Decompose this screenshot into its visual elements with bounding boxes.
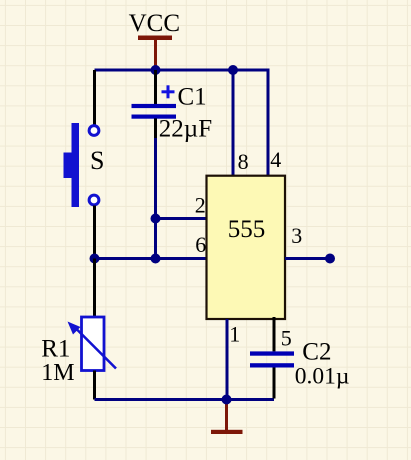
- svg-text:3: 3: [291, 223, 302, 248]
- svg-text:R1: R1: [41, 336, 70, 363]
- junction at ground: [222, 395, 232, 405]
- svg-text:6: 6: [195, 232, 206, 257]
- wire: pin 6 rail: [95, 257, 208, 260]
- svg-text:2: 2: [195, 193, 206, 218]
- junction at pin 8: [228, 65, 238, 75]
- svg-text:4: 4: [270, 147, 281, 172]
- svg-text:22µF: 22µF: [159, 115, 212, 142]
- svg-text:S: S: [90, 146, 104, 175]
- wire: R1 bottom to ground rail: [93, 371, 96, 400]
- junction C1/pin6 rail: [151, 254, 161, 264]
- capacitor C1: [132, 70, 177, 140]
- wire: C1 bottom down to pin6 rail: [154, 138, 157, 259]
- wire: junction down to R1: [93, 259, 96, 318]
- wire: pin 8 drop: [232, 70, 235, 177]
- wire: top rail from switch to pin 4 corner: [95, 70, 269, 177]
- wire: pin 2 stub: [156, 217, 208, 220]
- wire: pin 3 output: [285, 257, 330, 260]
- svg-text:0.01µ: 0.01µ: [295, 363, 350, 389]
- capacitor C2: [250, 317, 294, 399]
- junction at VCC stem: [151, 65, 161, 75]
- svg-text:8: 8: [238, 149, 249, 174]
- switch S: [64, 123, 99, 207]
- junction at pin 2: [151, 214, 161, 224]
- wire: pin 1 to ground rail: [226, 319, 229, 400]
- IC U1 555: [207, 176, 286, 319]
- svg-text:VCC: VCC: [129, 10, 180, 37]
- svg-text:1M: 1M: [41, 360, 74, 386]
- wire: switch bottom to junction: [93, 206, 96, 259]
- svg-text:1: 1: [229, 322, 240, 347]
- wire: left drop to switch top: [93, 70, 96, 125]
- ground: [211, 401, 243, 434]
- node: output terminal dot: [325, 254, 335, 264]
- svg-text:555: 555: [228, 216, 265, 243]
- power VCC symbol: [138, 36, 172, 71]
- svg-text:C1: C1: [178, 84, 207, 111]
- resistor R1 (rheostat): [68, 317, 117, 371]
- wire: bottom ground rail: [95, 398, 275, 401]
- junction at switch/R1: [90, 254, 100, 264]
- svg-text:C2: C2: [302, 338, 331, 365]
- svg-text:5: 5: [281, 326, 292, 351]
